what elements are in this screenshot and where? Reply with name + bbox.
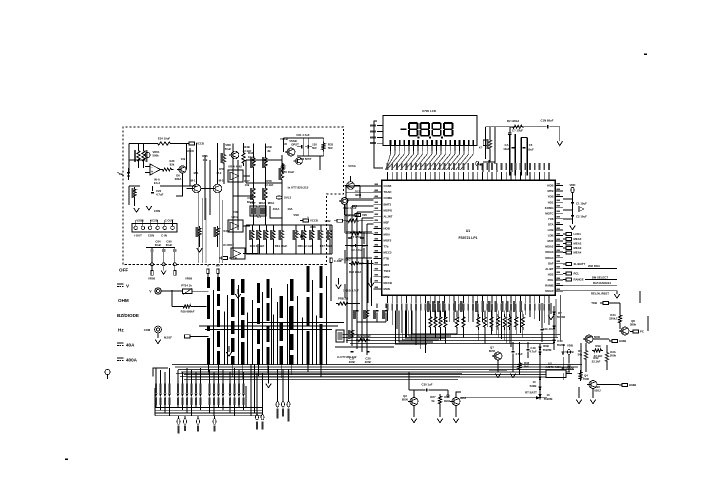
svg-text:5k6: 5k6 (524, 365, 529, 369)
svg-text:MOA: MOA (268, 201, 275, 205)
svg-text:CON5: CON5 (384, 184, 392, 188)
svg-text:8k: 8k (267, 149, 271, 153)
svg-text:VCCB: VCCB (280, 137, 288, 141)
svg-text:I-OUT: I-OUT (134, 234, 142, 238)
svg-text:YFT: YFT (256, 215, 262, 219)
svg-text:C2 10uF: C2 10uF (576, 215, 587, 219)
svg-text:T7b: T7b (384, 245, 389, 249)
svg-text:MEAF: MEAF (574, 237, 582, 241)
svg-text:RANGE: RANGE (574, 278, 584, 282)
svg-text:VCCB: VCCB (310, 219, 318, 223)
svg-text:7000: 7000 (583, 377, 590, 381)
svg-text:VDD: VDD (570, 183, 576, 187)
svg-text:RA5 RANGE1: RA5 RANGE1 (593, 281, 611, 285)
svg-text:2N2 ROA: 2N2 ROA (588, 264, 600, 268)
svg-text:U1: U1 (466, 229, 470, 233)
svg-text:4.7uF: 4.7uF (156, 193, 164, 197)
svg-text:3904: 3904 (444, 399, 451, 403)
svg-text:HOB: HOB (547, 184, 553, 188)
svg-text:ROL: ROL (548, 278, 554, 282)
svg-text:C14 5600: C14 5600 (588, 335, 601, 339)
svg-text:YO8: YO8 (548, 217, 554, 221)
svg-text:CON: CON (148, 234, 154, 238)
svg-text:H32B: H32B (619, 339, 626, 343)
svg-text:5522B: 5522B (557, 343, 565, 347)
svg-text:380A: 380A (175, 177, 182, 181)
svg-text:MJ/1F: MJ/1F (164, 335, 172, 339)
svg-text:R55 10uF: R55 10uF (282, 170, 295, 174)
svg-text:BMT3: BMT3 (384, 202, 392, 206)
svg-text:R7 370J: R7 370J (351, 235, 362, 239)
svg-text:MTB: MTB (384, 275, 390, 279)
svg-text:MOA4: MOA4 (545, 256, 554, 260)
svg-text:YOB: YOB (547, 195, 553, 199)
svg-text:380k: 380k (630, 323, 637, 327)
svg-text:Hz: Hz (118, 328, 124, 333)
svg-text:R99 4.7uF: R99 4.7uF (343, 206, 357, 210)
svg-text:TKB: TKB (591, 301, 597, 305)
svg-text:EA.2: EA.2 (154, 181, 161, 185)
svg-text:C? 10uF: C? 10uF (512, 129, 523, 133)
svg-text:AJ3T3-4J26: AJ3T3-4J26 (545, 365, 561, 369)
svg-text:10uF: 10uF (527, 148, 534, 152)
svg-text:R22 90kJ: R22 90kJ (349, 270, 362, 274)
svg-text:MOA: MOA (259, 201, 266, 205)
svg-text:TSF2: TSF2 (384, 269, 391, 273)
svg-text:50uF: 50uF (225, 147, 232, 151)
svg-text:60uJ: 60uJ (247, 200, 254, 204)
svg-text:5522M: 5522M (543, 348, 552, 352)
svg-text:C-IN: C-IN (161, 234, 167, 238)
svg-text:VR08: VR08 (148, 276, 155, 280)
svg-text:VS8B: VS8B (136, 219, 143, 223)
svg-text:220kJ: 220kJ (609, 317, 617, 321)
svg-text:RAMB: RAMB (545, 284, 553, 288)
svg-text:MEA3: MEA3 (574, 246, 582, 250)
svg-text:60uF: 60uF (166, 243, 173, 247)
svg-text:VC6A: VC6A (348, 164, 355, 168)
svg-text:REL/XL/RB1T: REL/XL/RB1T (591, 292, 609, 296)
svg-text:OPST: OPST (291, 143, 299, 147)
svg-text:VDB: VDB (325, 219, 331, 223)
svg-text:PT24 1k: PT24 1k (181, 284, 192, 288)
svg-text:8550: 8550 (402, 398, 409, 402)
svg-text:4.7uF: 4.7uF (515, 352, 523, 356)
svg-text:mA: mA (216, 264, 221, 268)
svg-text:DTA: DTA (548, 222, 554, 226)
svg-text:PRB 2R: PRB 2R (338, 297, 348, 301)
svg-text:COM: COM (144, 328, 151, 332)
svg-text:60uF: 60uF (155, 243, 162, 247)
svg-text:LCD1: LCD1 (574, 232, 582, 236)
svg-text:10uF: 10uF (503, 147, 510, 151)
svg-text:R48: R48 (310, 225, 316, 229)
svg-text:AL/BT: AL/BT (545, 267, 554, 271)
svg-text:A: A (207, 264, 209, 268)
svg-text:MGPO: MGPO (384, 208, 393, 212)
svg-text:5k: 5k (431, 399, 435, 403)
svg-text:C1 10uF: C1 10uF (576, 202, 587, 206)
svg-text:3604: 3604 (355, 193, 362, 197)
svg-text:MOA2: MOA2 (545, 245, 554, 249)
svg-text:COMH: COMH (384, 196, 393, 200)
svg-text:40A: 40A (287, 207, 292, 211)
svg-text:HO2: HO2 (548, 272, 554, 276)
svg-text:020J: 020J (594, 389, 601, 393)
svg-text:40A: 40A (126, 343, 135, 348)
svg-text:X?: X? (479, 146, 483, 150)
svg-text:MOTC: MOTC (545, 211, 553, 215)
svg-text:V20: V20 (362, 213, 367, 217)
svg-text:MEA2: MEA2 (574, 242, 582, 246)
svg-text:FTB: FTB (384, 257, 389, 261)
svg-text:22.1kF: 22.1kF (265, 183, 274, 187)
svg-text:MEA4: MEA4 (574, 251, 582, 255)
svg-text:MTB: MTB (547, 189, 553, 193)
svg-text:522B: 522B (530, 384, 537, 388)
svg-text:R43 22.1kF: R43 22.1kF (250, 244, 265, 248)
svg-text:UR-B: UR-B (232, 215, 239, 219)
svg-text:RT BATT: RT BATT (525, 391, 537, 395)
svg-text:la UT7.820.213: la UT7.820.213 (288, 186, 309, 190)
svg-text:VCCB: VCCB (196, 142, 204, 146)
svg-text:U6 5F5T: U6 5F5T (301, 157, 312, 161)
svg-text:C1N 68uF: C1N 68uF (541, 119, 554, 123)
svg-text:200k: 200k (610, 354, 617, 358)
svg-text:MHN: MHN (384, 287, 390, 291)
svg-text:MOF2: MOF2 (384, 239, 392, 243)
svg-text:R27 500kF: R27 500kF (357, 334, 371, 338)
svg-text:8050: 8050 (489, 349, 496, 353)
svg-text:M.2: M.2 (217, 171, 222, 175)
svg-text:C5: C5 (529, 143, 533, 147)
svg-text:10k: 10k (245, 183, 250, 187)
svg-text:10k: 10k (181, 157, 186, 161)
svg-text:MT2: MT2 (384, 263, 390, 267)
svg-text:R99: R99 (595, 344, 601, 348)
svg-text:C61 4.7uF: C61 4.7uF (296, 133, 310, 137)
svg-text:TOAD: TOAD (384, 190, 392, 194)
svg-text:SVL3: SVL3 (284, 196, 291, 200)
svg-text:MCCB: MCCB (384, 281, 392, 285)
svg-text:MOLR: MOLR (545, 289, 553, 293)
svg-text:ALJNT: ALJNT (384, 214, 393, 218)
svg-text:VDB: VDB (567, 344, 573, 348)
svg-text:MUF: MUF (547, 239, 553, 243)
svg-text:23hF: 23hF (349, 360, 356, 364)
svg-text:5522B: 5522B (565, 350, 573, 354)
svg-text:VS8: VS8 (293, 213, 299, 217)
svg-text:R2 120kJ: R2 120kJ (507, 119, 520, 123)
svg-text:22.1kF: 22.1kF (243, 149, 252, 153)
svg-text:HOB: HOB (384, 226, 390, 230)
svg-text:UR-A 4562: UR-A 4562 (228, 165, 242, 169)
svg-text:M.1: M.1 (194, 171, 199, 175)
svg-text:OHM: OHM (118, 298, 129, 303)
svg-text:400A: 400A (126, 358, 138, 363)
svg-text:RCL: RCL (574, 272, 580, 276)
svg-text:VSSB: VSSB (289, 139, 297, 143)
svg-text:E34 10uF: E34 10uF (158, 137, 171, 141)
svg-text:M-1: M-1 (191, 179, 196, 183)
svg-text:KOMG: KOMG (545, 206, 554, 210)
svg-text:MCC3: MCC3 (384, 251, 392, 255)
svg-text:U700 LCD: U700 LCD (422, 109, 437, 113)
svg-text:M-2: M-2 (219, 179, 224, 183)
svg-text:82k: 82k (170, 163, 175, 167)
svg-text:U6 OPA7: U6 OPA7 (222, 243, 234, 247)
svg-text:5hF: 5hF (312, 146, 317, 150)
svg-text:LDB: LDB (548, 234, 554, 238)
svg-text:PC: PC (640, 330, 644, 334)
svg-text:5hF: 5hF (328, 146, 333, 150)
svg-text:R66 22.1uF: R66 22.1uF (298, 244, 313, 248)
svg-text:500k: 500k (153, 154, 160, 158)
svg-text:5522B: 5522B (565, 366, 573, 370)
svg-text:DM SELECT: DM SELECT (592, 276, 608, 280)
svg-text:56k: 56k (578, 353, 583, 357)
svg-text:OFF: OFF (119, 268, 128, 273)
svg-text:R18 680kF: R18 680kF (181, 310, 195, 314)
svg-text:VR08: VR08 (185, 276, 192, 280)
svg-text:H33B: H33B (629, 383, 636, 387)
svg-text:XL/BATT: XL/BATT (574, 262, 586, 266)
svg-text:M2F: M2F (384, 220, 390, 224)
svg-text:R64 10uF: R64 10uF (275, 244, 288, 248)
svg-text:FS9721 LP1: FS9721 LP1 (458, 236, 477, 240)
svg-text:C-OUT: C-OUT (165, 219, 174, 223)
svg-text:LOB: LOB (548, 228, 554, 232)
svg-text:4.7uF: 4.7uF (529, 350, 537, 354)
svg-text:C30 1uF: C30 1uF (422, 383, 433, 387)
svg-text:VC2B: VC2B (150, 219, 157, 223)
svg-text:404A: 404A (273, 207, 280, 211)
svg-text:BZ/DIODE: BZ/DIODE (117, 313, 139, 318)
svg-text:VCCB: VCCB (229, 256, 237, 260)
svg-text:HO1: HO1 (548, 200, 554, 204)
svg-text:22hF: 22hF (365, 360, 372, 364)
svg-text:MOA3: MOA3 (545, 250, 554, 254)
svg-text:+: + (151, 170, 153, 174)
svg-text:MOA: MOA (384, 233, 391, 237)
svg-text:CON: CON (154, 209, 160, 213)
svg-text:DbF: DbF (548, 261, 554, 265)
svg-text:22.1kF: 22.1kF (592, 360, 601, 364)
svg-text:C58: C58 (232, 210, 238, 214)
svg-text:5522B: 5522B (557, 315, 565, 319)
svg-text:R6? 50uF: R6? 50uF (320, 244, 333, 248)
